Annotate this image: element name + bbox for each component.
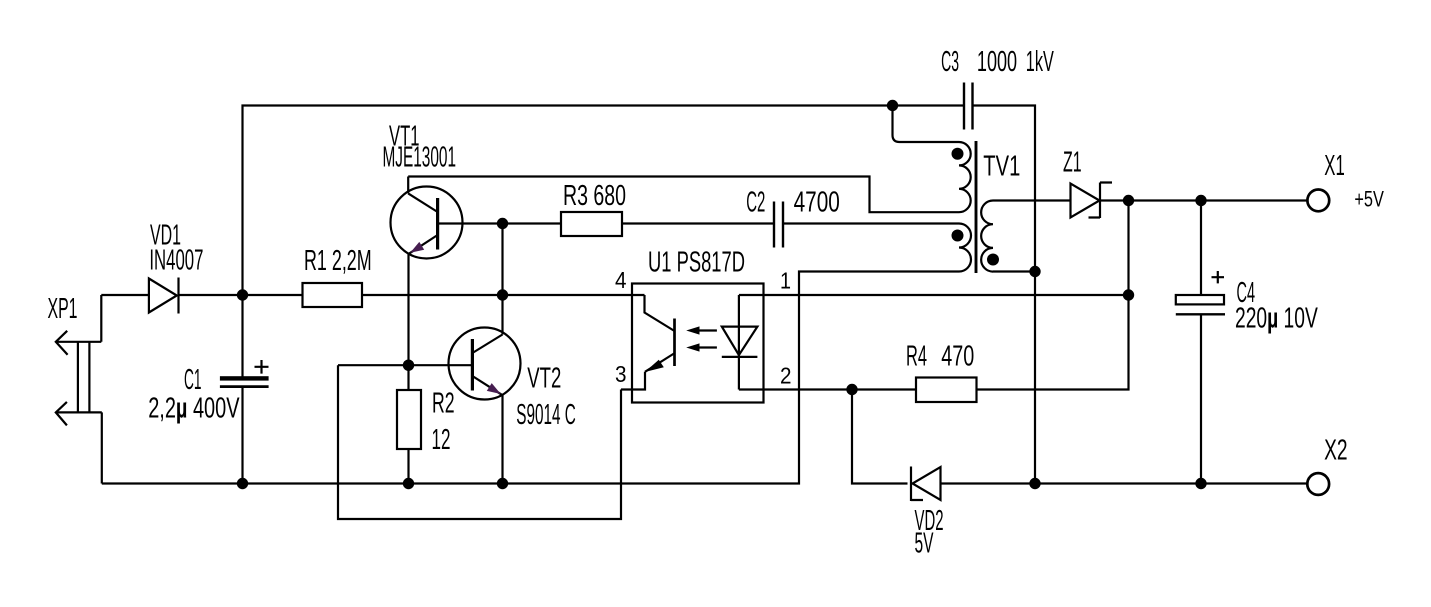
- wire: R1 to U1 pin 4: [362, 294, 645, 296]
- svg-text:3: 3: [615, 361, 627, 387]
- wire: U1 pin 2 to R4: [739, 388, 916, 390]
- capacitor C3: [941, 46, 1054, 130]
- VD2 triangle: [913, 467, 941, 500]
- wire: VD1 cathode to R1: [179, 294, 303, 296]
- wire: C3 right plate right then down right column to bottom rail: [973, 106, 1036, 484]
- wire: R3 to C2: [622, 222, 773, 224]
- zener Z1: [1063, 146, 1112, 218]
- wire: U1 pin 3 loop down and left to VT2 base: [338, 365, 621, 519]
- svg-text:C2: C2: [746, 186, 765, 218]
- svg-text:R1 2,2M: R1 2,2M: [304, 245, 372, 277]
- resistor R3: [561, 180, 626, 236]
- VD1 triangle: [149, 279, 177, 313]
- node: Z1 output / feedback column top: [1123, 195, 1134, 206]
- VT1 circle: [391, 187, 463, 259]
- wire: VT1 collector to transformer primary bottom: [408, 177, 959, 213]
- connector XP1: [48, 293, 102, 484]
- transistor VT2: [338, 328, 576, 484]
- svg-text:R3 680: R3 680: [563, 180, 626, 212]
- svg-text:R4: R4: [906, 340, 927, 372]
- resistor R1: [303, 245, 372, 307]
- node: pin 2 / secondary ground drop: [846, 384, 857, 395]
- svg-text:MJE13001: MJE13001: [383, 142, 457, 174]
- capacitor C2: [746, 186, 840, 247]
- svg-text:2,2µ 400V: 2,2µ 400V: [148, 392, 240, 424]
- XP1 bottom pin arrow: [56, 402, 67, 426]
- Z1 triangle: [1071, 184, 1100, 218]
- node: R1 wire / base column: [497, 289, 508, 300]
- C2 plates: [774, 202, 783, 248]
- node: R2 bottom on rail: [403, 478, 414, 489]
- optocoupler U1: [615, 246, 792, 402]
- svg-text:1: 1: [780, 268, 791, 294]
- U1 body box: [632, 284, 764, 403]
- node: VT2 emitter on rail: [497, 478, 508, 489]
- C4 plus sign: [1212, 271, 1225, 283]
- wire: feedback column down and left to R4: [977, 201, 1129, 390]
- diode VD1: [149, 220, 204, 314]
- R2 body: [397, 390, 421, 449]
- U1 light arrow upper: [698, 329, 717, 331]
- C1 negative plate: [220, 385, 269, 388]
- node: VT1 base / R3 / collector column: [497, 218, 508, 229]
- node: secondary bottom junction: [1029, 266, 1040, 277]
- X1 circle: [1307, 190, 1329, 212]
- C1 plus sign: [255, 360, 269, 374]
- wire: primary winding feed drop: [893, 106, 960, 143]
- svg-text:470: 470: [941, 340, 974, 372]
- resistor R2: [397, 388, 455, 484]
- wire: Z1 cathode to X1: [1100, 199, 1307, 201]
- svg-text:12: 12: [432, 424, 451, 456]
- wire: C2 to transformer feedback winding top: [784, 222, 960, 224]
- U1 phototransistor collector: [645, 295, 675, 331]
- svg-text:VT2: VT2: [527, 363, 561, 395]
- wire: secondary ground rail to VD2: [852, 390, 908, 484]
- U1 LED triangle: [722, 327, 758, 356]
- U1 LED cathode bar: [722, 356, 758, 358]
- U1 phototransistor emitter: [645, 353, 675, 372]
- U1 phototransistor base bar: [673, 319, 676, 367]
- svg-text:4700: 4700: [794, 186, 840, 218]
- XP1 top pin arrow: [56, 331, 68, 355]
- svg-text:X1: X1: [1324, 150, 1345, 182]
- svg-text:1kV: 1kV: [1026, 46, 1054, 78]
- C3 plates: [964, 83, 973, 130]
- wire top rail: C1 node up and right to C3 left plate: [243, 106, 964, 296]
- node: top rail / transformer primary tap: [887, 100, 898, 111]
- wire: VT2 emitter to rail: [501, 395, 503, 483]
- R1 body: [303, 283, 363, 307]
- svg-text:5V: 5V: [915, 528, 934, 560]
- svg-text:S9014 C: S9014 C: [516, 399, 576, 431]
- wire: XP1 top pin: [56, 295, 102, 342]
- wire: X1 line down to C4: [1200, 201, 1202, 296]
- C1 positive plate: [220, 376, 269, 380]
- VT1 collector lead: [408, 193, 437, 212]
- node: VT2 base / R2 top: [403, 360, 414, 371]
- svg-text:R2: R2: [432, 388, 455, 420]
- TV1 primary polarity dot: [952, 148, 964, 160]
- wire: node A down to C1 top plate: [241, 295, 243, 377]
- TV1 feedback polarity dot: [952, 230, 964, 242]
- node: C4 bottom tap: [1195, 478, 1206, 489]
- U1 emitter arrow: [645, 360, 664, 372]
- node: C4 top tap: [1195, 195, 1206, 206]
- TV1 secondary winding: [981, 201, 993, 272]
- wire: XP1 bottom pin: [56, 412, 102, 483]
- transformer TV1: [952, 141, 1041, 489]
- svg-text:C1: C1: [184, 364, 202, 396]
- wire: R2 bottom to rail: [407, 449, 409, 484]
- VT1 collector stub up: [407, 177, 409, 194]
- capacitor C1: [148, 295, 268, 484]
- C4 negative plate: [1176, 313, 1225, 315]
- wire: secondary bottom to right column: [993, 270, 1035, 272]
- capacitor C4: [1176, 201, 1318, 484]
- R3 body: [561, 212, 622, 236]
- wire: XP1 to VD1 anode: [101, 294, 149, 296]
- wire: C1 bottom plate to bottom rail: [241, 387, 243, 484]
- node A: VD1 / C1 / R1 / top rail: [237, 289, 248, 300]
- Z1 cathode bar with hooks: [1089, 183, 1113, 219]
- transistor VT1: [383, 121, 561, 259]
- VT1 base bar: [436, 198, 439, 250]
- node: C1 bottom on rail: [237, 478, 248, 489]
- wire: U1 emitter to pin 3: [621, 372, 645, 390]
- wire: base column down to VT2 collector: [501, 224, 503, 335]
- terminal X1: [1307, 150, 1384, 211]
- svg-text:C3: C3: [941, 46, 959, 78]
- zener VD2: [911, 467, 944, 560]
- terminal X2: [1307, 435, 1347, 495]
- wire: VD2 anode to X2: [941, 482, 1307, 484]
- svg-text:TV1: TV1: [983, 151, 1020, 183]
- TV1 primary winding: [959, 142, 971, 212]
- VT2 base bar: [471, 339, 474, 391]
- TV1 core: [975, 141, 978, 273]
- wire: U1 pin 1 to feedback column: [739, 294, 1129, 296]
- VT2 collector lead: [472, 335, 502, 354]
- X2 circle: [1307, 473, 1329, 495]
- U1 light arrow lower: [698, 346, 717, 348]
- svg-text:Z1: Z1: [1063, 146, 1082, 178]
- XP1 connector body bars: [78, 342, 90, 413]
- wire: C4 bottom to X2 rail: [1200, 314, 1202, 483]
- svg-text:XP1: XP1: [48, 293, 78, 325]
- svg-text:1000: 1000: [977, 46, 1017, 78]
- svg-text:2: 2: [780, 363, 792, 389]
- node: pin 1 wire junction on feedback column: [1123, 289, 1134, 300]
- VD2 cathode bar with foot: [911, 467, 923, 502]
- svg-text:IN4007: IN4007: [149, 245, 203, 277]
- VT2 emitter arrow: [487, 383, 501, 394]
- wire: VT1 base lead to R3: [438, 222, 561, 224]
- C4 positive plate: [1176, 295, 1224, 304]
- wire: secondary top to Z1 anode: [993, 199, 1071, 201]
- VD1 cathode bar: [177, 278, 179, 314]
- VT1 emitter arrow: [410, 242, 424, 253]
- svg-text:U1 PS817D: U1 PS817D: [648, 246, 745, 278]
- svg-text:+5V: +5V: [1354, 187, 1384, 212]
- wire: U1 LED column pin1 to pin2: [738, 295, 740, 390]
- VT2 emitter lead: [472, 376, 502, 395]
- node: right column on bottom rail: [1029, 478, 1040, 489]
- VT2 circle: [449, 328, 521, 400]
- wire: VT2 base lead: [338, 364, 472, 366]
- TV1 secondary polarity dot: [987, 254, 999, 266]
- resistor R4: [906, 340, 977, 402]
- R4 body: [916, 378, 977, 403]
- TV1 feedback winding: [959, 224, 971, 272]
- svg-text:X2: X2: [1324, 435, 1348, 467]
- svg-text:220µ 10V: 220µ 10V: [1235, 302, 1318, 334]
- wire: feedback winding bottom down to primary ground rail: [102, 272, 959, 484]
- VT1 emitter lead: [408, 235, 437, 254]
- wire: VT1 emitter down to VT2 base node and R2: [407, 254, 409, 390]
- svg-text:4: 4: [615, 267, 627, 293]
